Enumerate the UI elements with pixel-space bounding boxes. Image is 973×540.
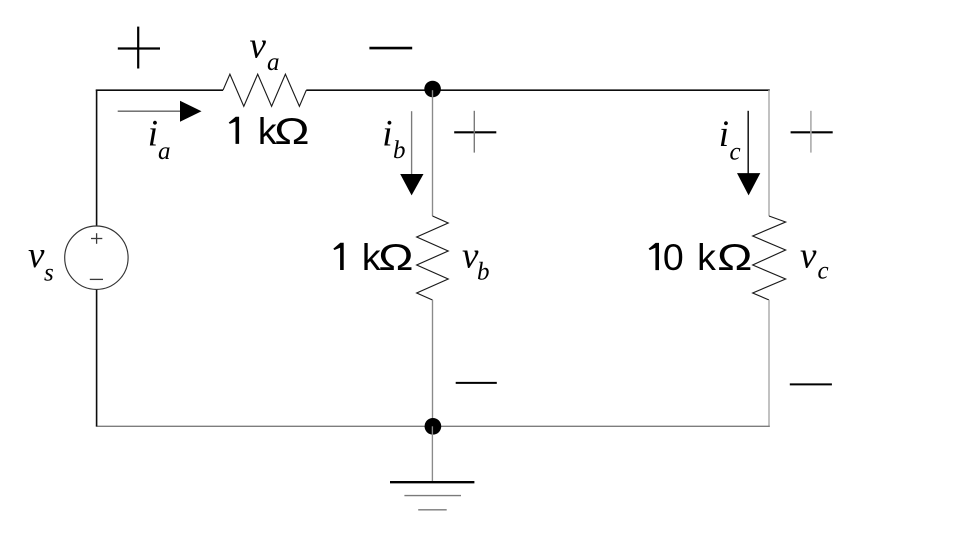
current arrow ib (shaft): [411, 111, 413, 176]
voltage source minus terminal mark: [90, 278, 103, 280]
voltage source U1 circle: [65, 226, 128, 289]
svg-text:i: i: [382, 114, 392, 155]
node B (bottom junction dot): [425, 418, 442, 435]
value label R1: 1 kOhm: [229, 110, 310, 153]
current arrow ic (shaft): [747, 111, 749, 176]
svg-text:a: a: [267, 49, 280, 76]
svg-text:Ω: Ω: [274, 110, 309, 152]
wire: left vertical bottom segment (source bottom to bottom wire): [96, 289, 98, 426]
polarity plus (va left, top-left): [118, 27, 160, 69]
resistor R2 1 kOhm vertical (middle branch): [417, 216, 449, 300]
label ia: [148, 114, 171, 165]
svg-text:c: c: [818, 257, 829, 284]
wire: bottom horizontal: [96, 425, 770, 427]
wire: left vertical top segment (source top to top-left corner): [96, 90, 98, 227]
current arrow ia (shaft): [118, 110, 181, 112]
svg-text:Ω: Ω: [717, 237, 752, 279]
wire: right branch lower segment: [768, 300, 770, 426]
label vs: [28, 235, 54, 286]
wire: top horizontal right segment (node A to top-right corner): [433, 89, 770, 91]
value label R2: 1 kOhm: [333, 236, 413, 279]
polarity minus (va right, top): [369, 47, 412, 50]
voltage source plus terminal mark: [91, 233, 102, 244]
current arrow ia (head): [180, 101, 202, 122]
label ic: [719, 114, 741, 166]
svg-text:v: v: [250, 26, 267, 67]
wire: right branch upper segment: [768, 90, 770, 216]
label vb: [462, 235, 490, 285]
node A (top junction dot): [424, 81, 441, 98]
svg-text:b: b: [477, 258, 490, 285]
svg-text:Ω: Ω: [378, 237, 413, 279]
polarity minus (vc bottom, right branch): [790, 383, 832, 385]
ground: [390, 482, 474, 510]
wire: top horizontal left segment: [96, 89, 223, 91]
label ib: [382, 114, 405, 165]
wire: top horizontal middle segment (resistor to node A): [306, 89, 432, 91]
polarity minus (vb bottom, middle branch): [456, 382, 497, 384]
svg-text:b: b: [393, 137, 406, 164]
svg-text:0: 0: [663, 236, 684, 278]
svg-text:v: v: [800, 235, 817, 276]
svg-text:i: i: [148, 114, 158, 155]
polarity plus (vc top, right branch): [791, 111, 833, 153]
wire: middle branch lower segment: [432, 300, 434, 426]
polarity plus (vb top, middle branch): [454, 111, 496, 153]
wire: middle branch upper segment: [432, 90, 434, 216]
svg-text:k: k: [697, 236, 716, 278]
resistor R3 10 kOhm vertical (right branch): [753, 216, 786, 300]
svg-text:v: v: [28, 235, 45, 276]
value label R3: 10 kOhm: [649, 236, 753, 279]
current arrow ib (head): [400, 174, 423, 195]
svg-text:s: s: [44, 259, 54, 286]
resistor R1 1 kOhm horizontal: [223, 74, 306, 106]
wire: ground stem: [431, 426, 433, 482]
svg-text:i: i: [719, 114, 729, 155]
svg-text:c: c: [730, 139, 741, 166]
label va: [250, 26, 280, 76]
svg-text:a: a: [158, 138, 171, 165]
label vc: [800, 235, 829, 284]
current arrow ic (head): [737, 173, 760, 195]
